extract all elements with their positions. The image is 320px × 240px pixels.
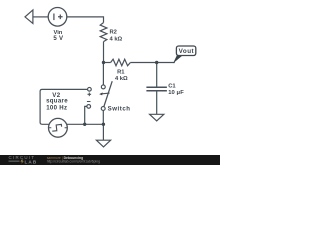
- svg-text:LAB: LAB: [25, 159, 38, 164]
- svg-text:Switch: Switch: [108, 105, 131, 112]
- svg-text:C1: C1: [168, 83, 176, 89]
- svg-text:Vout: Vout: [179, 48, 195, 55]
- svg-text:100 Hz: 100 Hz: [46, 105, 67, 112]
- svg-text:R2: R2: [110, 30, 117, 36]
- svg-text:10 μF: 10 μF: [168, 90, 184, 96]
- svg-text:4 kΩ: 4 kΩ: [110, 36, 123, 42]
- svg-text:4 kΩ: 4 kΩ: [115, 76, 128, 82]
- svg-text:5 V: 5 V: [53, 35, 64, 42]
- svg-text:R1: R1: [117, 70, 125, 76]
- svg-text:http://circuitlab.com/c/en91ab: http://circuitlab.com/c/en91ab/6ping: [47, 160, 100, 164]
